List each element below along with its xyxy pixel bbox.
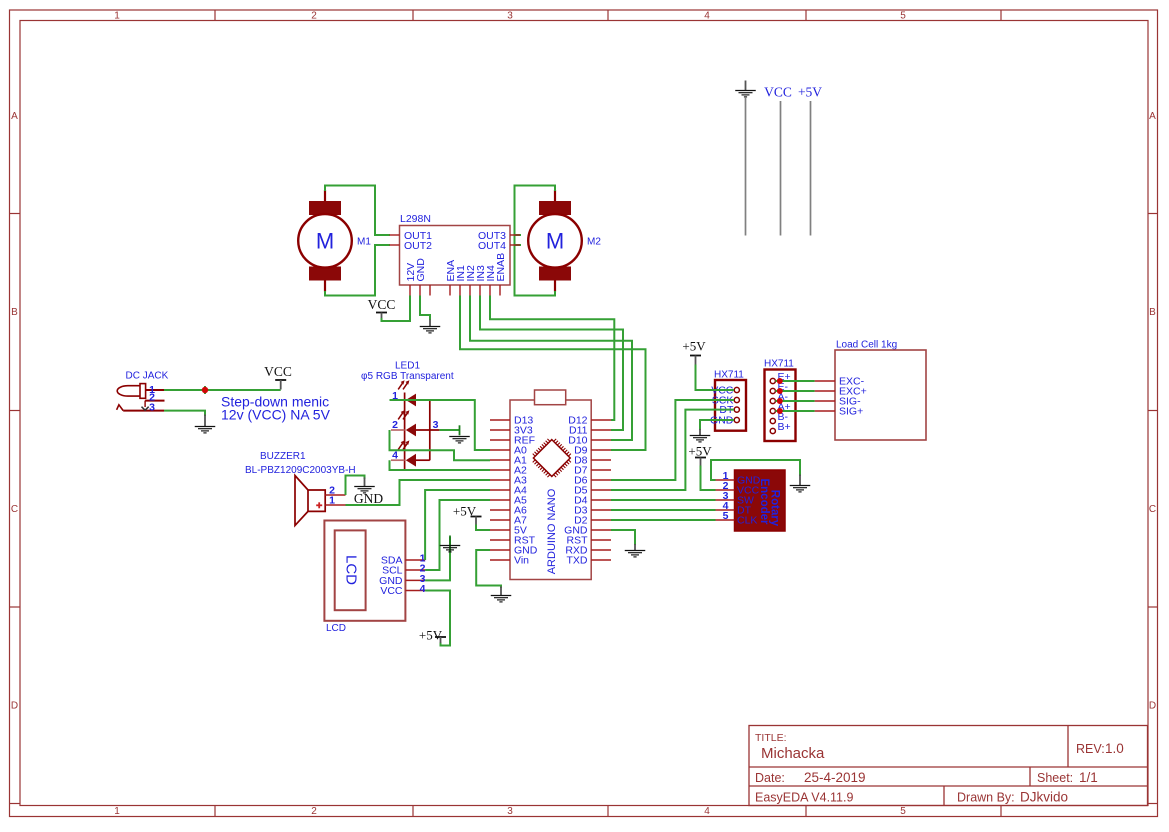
svg-text:BUZZER1: BUZZER1 <box>260 451 306 462</box>
svg-text:1/1: 1/1 <box>1079 770 1098 785</box>
svg-text:VCC: VCC <box>764 85 792 100</box>
svg-text:M: M <box>316 229 334 254</box>
label M2 <box>587 237 601 248</box>
wire +5V to 5V pin <box>476 525 490 531</box>
svg-text:ENAB: ENAB <box>495 253 507 282</box>
power flag +5V at Arduino 5V <box>453 504 482 525</box>
svg-text:2: 2 <box>392 419 398 431</box>
wire LED pin1 to A0 <box>390 400 491 450</box>
MCU ARDUINO NANO box <box>510 390 591 580</box>
svg-text:25-4-2019: 25-4-2019 <box>804 770 866 785</box>
svg-text:DC JACK: DC JACK <box>126 371 169 382</box>
svg-text:5: 5 <box>900 806 906 817</box>
svg-text:1: 1 <box>329 495 335 507</box>
svg-text:CLK: CLK <box>737 515 757 527</box>
module HX711 left <box>710 370 746 431</box>
svg-text:3: 3 <box>507 11 513 22</box>
LED LED1 RGB <box>391 380 439 469</box>
wire Arduino right GND to ground <box>611 530 635 545</box>
title block <box>749 726 1148 806</box>
svg-text:Load Cell 1kg: Load Cell 1kg <box>836 340 897 351</box>
svg-text:LCD: LCD <box>326 623 346 634</box>
IC die glyph <box>533 439 571 477</box>
power flag VCC <box>368 297 396 319</box>
driver U1 L298N <box>390 213 521 285</box>
svg-text:B+: B+ <box>778 421 791 433</box>
wire LED pin2 to A1 <box>390 430 491 460</box>
svg-text:DJkvido: DJkvido <box>1020 790 1068 805</box>
power flag +5V at encoder <box>688 444 712 466</box>
svg-text:5: 5 <box>900 11 906 22</box>
wire LED pin4 to A2 <box>390 460 491 470</box>
wire buzzer pin2 to ground <box>346 476 365 496</box>
svg-text:+5V: +5V <box>798 85 822 100</box>
wire jack pin1 to VCC <box>164 389 281 391</box>
frame column labels <box>114 11 906 817</box>
ground at LED <box>449 425 470 443</box>
svg-text:2: 2 <box>311 11 317 22</box>
svg-text:L298N: L298N <box>400 213 431 225</box>
svg-text:1: 1 <box>114 11 120 22</box>
svg-text:B: B <box>11 307 18 318</box>
svg-text:5: 5 <box>723 510 729 522</box>
svg-text:2: 2 <box>311 806 317 817</box>
label M1 <box>357 237 371 248</box>
label ARDUINO NANO <box>546 488 558 574</box>
wire Arduino left GND to ground <box>476 550 501 588</box>
rotary encoder module <box>716 470 786 531</box>
display LCD <box>324 521 425 635</box>
ground rail symbol <box>735 81 756 236</box>
svg-text:B: B <box>1149 307 1156 318</box>
wire LCD GND to ground <box>425 537 450 580</box>
svg-text:HX711: HX711 <box>764 359 794 370</box>
svg-text:OUT2: OUT2 <box>404 240 432 252</box>
net +5V rail <box>798 85 822 236</box>
wire +5V to encoder VCC <box>701 466 716 491</box>
LED pin numbers <box>392 390 439 462</box>
svg-text:4: 4 <box>704 11 710 22</box>
svg-text:D: D <box>11 701 18 712</box>
svg-text:BL-PBZ1209C2003YB-H: BL-PBZ1209C2003YB-H <box>245 465 356 476</box>
note step-down text <box>221 393 331 422</box>
svg-text:+5V: +5V <box>682 339 706 354</box>
wire D5 to HX711 DT <box>611 410 734 490</box>
wire LED pin3 to ground <box>439 429 459 431</box>
wire D2 to encoder CLK <box>611 519 716 521</box>
svg-text:3: 3 <box>507 806 513 817</box>
svg-text:A: A <box>11 111 18 122</box>
net VCC rail <box>764 85 792 236</box>
svg-text:Sheet:: Sheet: <box>1037 771 1073 785</box>
svg-text:φ5 RGB Transparent: φ5 RGB Transparent <box>361 371 454 382</box>
svg-text:+5V: +5V <box>688 444 712 459</box>
wires HX711 to load cell <box>775 381 814 411</box>
svg-text:EasyEDA V4.11.9: EasyEDA V4.11.9 <box>755 791 853 805</box>
svg-text:SIG+: SIG+ <box>839 406 863 418</box>
wire LCD SCL to A5 <box>425 500 490 570</box>
ground below Arduino <box>491 587 512 602</box>
svg-text:M: M <box>546 229 564 254</box>
svg-text:TITLE:: TITLE: <box>755 732 787 744</box>
svg-text:VCC: VCC <box>264 364 292 379</box>
ground at jack <box>195 415 216 433</box>
svg-text:REV:: REV: <box>1076 742 1105 756</box>
wire M1 bottom to OUT2 <box>325 245 390 296</box>
svg-text:C: C <box>1149 504 1156 515</box>
wire D3 to encoder DT <box>611 509 716 511</box>
svg-text:ARDUINO NANO: ARDUINO NANO <box>546 488 558 574</box>
svg-text:+5V: +5V <box>419 628 443 643</box>
svg-text:Date:: Date: <box>755 771 785 785</box>
svg-text:4: 4 <box>420 583 426 595</box>
wire buzzer pin1 to A3 <box>346 480 491 505</box>
svg-text:Drawn By:: Drawn By: <box>957 791 1015 805</box>
LED1 labels <box>361 361 454 383</box>
wire OUT3 OUT4 to M2 <box>515 186 556 296</box>
svg-text:4: 4 <box>704 806 710 817</box>
wire D6 to HX711 SCK <box>611 400 734 480</box>
power flag VCC at jack <box>264 364 292 390</box>
sensor Load Cell 1kg <box>815 340 926 441</box>
wire D4 to encoder SW <box>611 499 716 501</box>
wire IN2 to D10 <box>470 296 632 441</box>
wire +5V to HX711 VCC <box>696 365 735 391</box>
wire IN3 to D11 <box>480 296 623 431</box>
ARDUINO NANO pins <box>490 415 611 567</box>
svg-text:1: 1 <box>114 806 120 817</box>
ground at LCD <box>440 536 461 553</box>
svg-text:VCC: VCC <box>368 297 396 312</box>
junction dots HX711 <box>777 378 783 414</box>
wire LCD SDA to A4 <box>425 490 490 560</box>
power flag +5V at HX711 <box>682 339 706 365</box>
wire HX711 GND to ground <box>700 420 734 430</box>
wire encoder GND to ground <box>711 460 800 480</box>
wire LCD VCC to +5V <box>425 591 450 646</box>
wire VCC to 12V pin <box>382 296 411 322</box>
svg-text:3: 3 <box>149 401 155 413</box>
frame row labels <box>11 111 1156 712</box>
wire GND pin to ground <box>420 296 430 321</box>
module HX711 right <box>764 359 796 442</box>
svg-text:M2: M2 <box>587 237 601 248</box>
svg-text:Michacka: Michacka <box>761 745 825 762</box>
svg-text:GND: GND <box>415 258 427 282</box>
svg-text:M1: M1 <box>357 237 371 248</box>
buzzer BUZZER1 labels <box>245 451 356 476</box>
connector DC JACK <box>117 371 169 414</box>
ground at buzzer <box>354 478 383 507</box>
svg-text:TXD: TXD <box>567 555 588 567</box>
svg-text:3: 3 <box>433 419 439 431</box>
wire M1 top to OUT1 <box>325 186 390 236</box>
L298N bottom pins <box>405 253 507 296</box>
wire IN1 to D9 <box>460 296 646 451</box>
svg-text:A: A <box>1149 111 1156 122</box>
motor M2 <box>528 190 582 292</box>
wire jack pin3 to ground <box>164 411 205 416</box>
svg-text:VCC: VCC <box>380 585 403 597</box>
svg-text:GND: GND <box>354 491 383 506</box>
junction dot <box>202 386 208 394</box>
svg-text:OUT4: OUT4 <box>478 240 506 252</box>
ground at encoder <box>790 475 811 492</box>
svg-text:C: C <box>11 504 18 515</box>
ground right of Arduino <box>625 544 646 557</box>
power flag +5V at LCD <box>419 628 446 644</box>
motor M1 <box>298 190 352 292</box>
ground at HX711 <box>690 429 711 442</box>
buzzer BUZZER1 <box>295 476 346 526</box>
svg-text:Vin: Vin <box>514 555 529 567</box>
svg-text:1.0: 1.0 <box>1105 741 1124 756</box>
svg-text:LCD: LCD <box>343 555 360 585</box>
wire IN4 to D12 <box>490 296 614 421</box>
ground at L298N <box>420 320 441 333</box>
svg-text:D: D <box>1149 701 1156 712</box>
svg-text:LED1: LED1 <box>395 361 420 372</box>
svg-text:12v (VCC) NA 5V: 12v (VCC) NA 5V <box>221 407 331 423</box>
